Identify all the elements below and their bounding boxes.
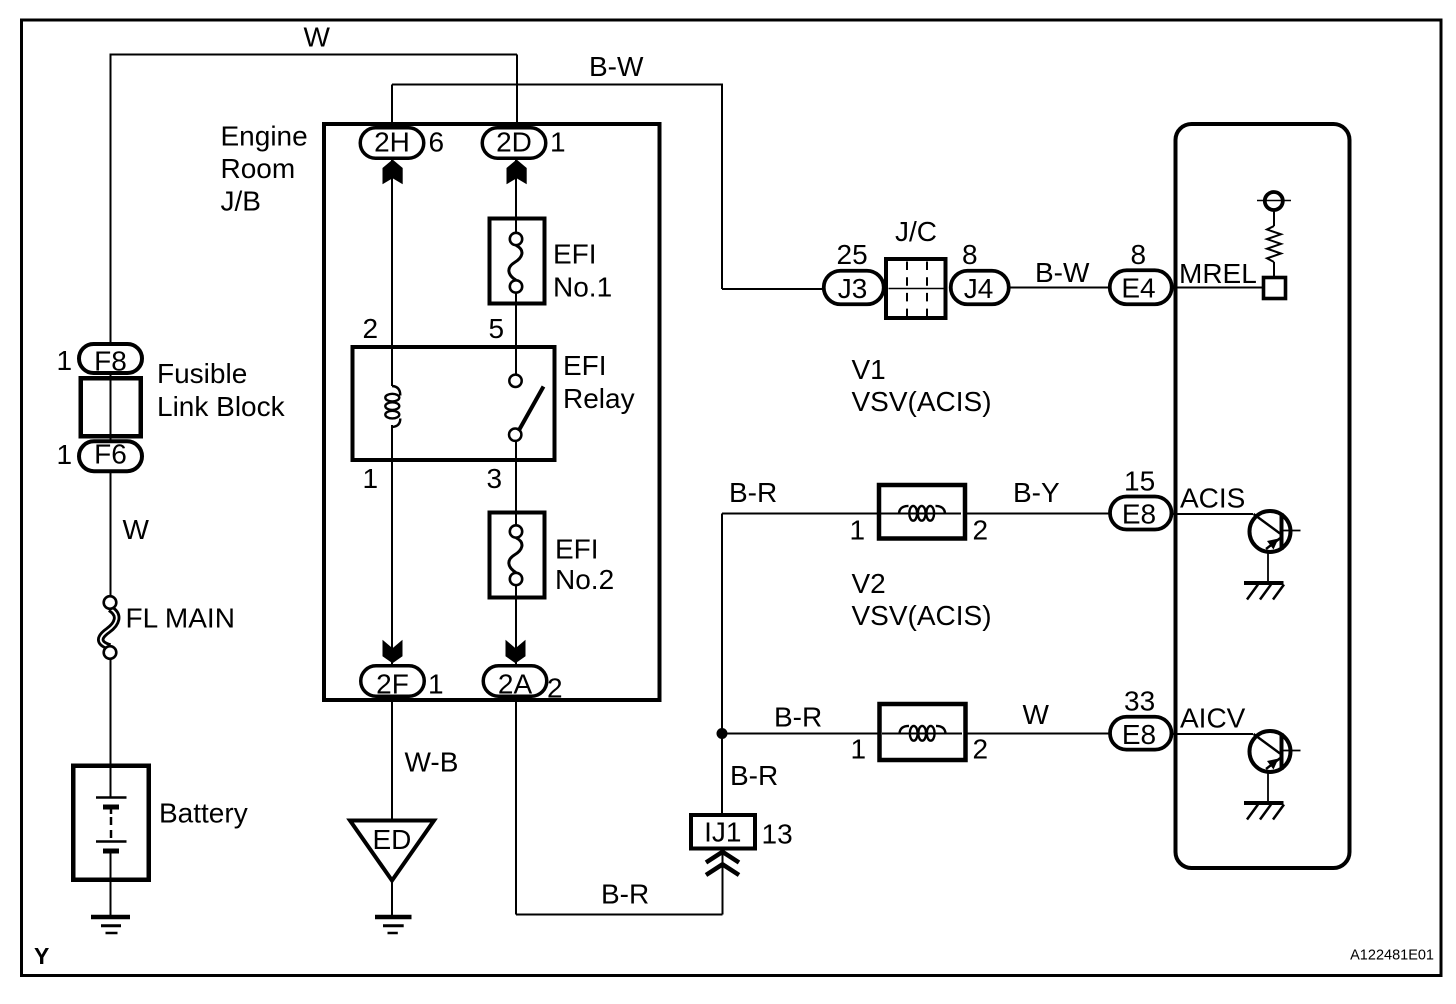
svg-text:13: 13 [762,819,793,850]
svg-text:ED: ED [373,824,412,855]
svg-text:Room: Room [221,153,296,184]
svg-text:E8: E8 [1122,499,1156,530]
svg-text:F6: F6 [94,439,127,470]
svg-text:1: 1 [851,734,867,765]
svg-text:B-R: B-R [730,760,778,791]
svg-text:1: 1 [57,345,73,376]
svg-text:Battery: Battery [159,798,248,829]
svg-text:1: 1 [550,126,566,157]
svg-text:Link Block: Link Block [157,391,286,422]
svg-text:W: W [304,22,331,53]
svg-text:EFI: EFI [563,350,607,381]
svg-text:25: 25 [837,239,868,270]
svg-text:J/C: J/C [895,216,937,247]
svg-text:1: 1 [850,515,866,546]
svg-text:A122481E01: A122481E01 [1350,948,1434,964]
svg-text:1: 1 [363,463,379,494]
svg-text:ACIS: ACIS [1180,483,1245,514]
svg-text:2H: 2H [374,126,410,157]
svg-text:3: 3 [487,463,503,494]
svg-text:1: 1 [428,669,444,700]
svg-text:EFI: EFI [553,239,597,270]
svg-text:15: 15 [1124,466,1155,497]
svg-text:Engine: Engine [221,121,308,152]
svg-text:J/B: J/B [221,186,261,217]
svg-text:2A: 2A [498,669,533,700]
svg-text:B-W: B-W [589,51,644,82]
svg-text:1: 1 [57,439,73,470]
svg-text:2F: 2F [376,669,409,700]
svg-text:33: 33 [1124,686,1155,717]
svg-text:8: 8 [1131,239,1147,270]
svg-text:Y: Y [34,943,49,969]
svg-text:B-R: B-R [774,702,822,733]
svg-text:5: 5 [489,313,505,344]
svg-text:V1: V1 [852,354,886,385]
svg-text:2D: 2D [496,126,532,157]
svg-text:W: W [123,514,150,545]
svg-text:MREL: MREL [1179,258,1257,289]
svg-text:Relay: Relay [563,383,635,414]
svg-text:IJ1: IJ1 [704,817,741,848]
svg-text:2: 2 [547,673,563,704]
svg-text:VSV(ACIS): VSV(ACIS) [852,386,992,417]
svg-text:2: 2 [363,313,379,344]
svg-text:F8: F8 [94,346,127,377]
svg-text:J3: J3 [838,273,868,304]
svg-text:B-R: B-R [729,477,777,508]
svg-text:6: 6 [429,126,445,157]
svg-text:J4: J4 [964,273,994,304]
svg-text:E4: E4 [1121,273,1155,304]
svg-text:FL MAIN: FL MAIN [126,603,235,634]
svg-text:W-B: W-B [405,746,459,777]
svg-text:E8: E8 [1122,719,1156,750]
svg-text:W: W [1023,699,1050,730]
svg-text:V2: V2 [852,568,886,599]
svg-text:2: 2 [973,734,989,765]
svg-text:AICV: AICV [1180,703,1246,734]
svg-text:B-R: B-R [601,879,649,910]
svg-text:Fusible: Fusible [157,358,247,389]
svg-text:EFI: EFI [555,534,599,565]
svg-text:8: 8 [962,239,978,270]
svg-text:2: 2 [973,515,989,546]
svg-text:B-Y: B-Y [1013,477,1060,508]
svg-text:VSV(ACIS): VSV(ACIS) [852,600,992,631]
svg-text:B-W: B-W [1035,257,1090,288]
svg-text:No.1: No.1 [553,272,612,303]
svg-text:No.2: No.2 [555,564,614,595]
